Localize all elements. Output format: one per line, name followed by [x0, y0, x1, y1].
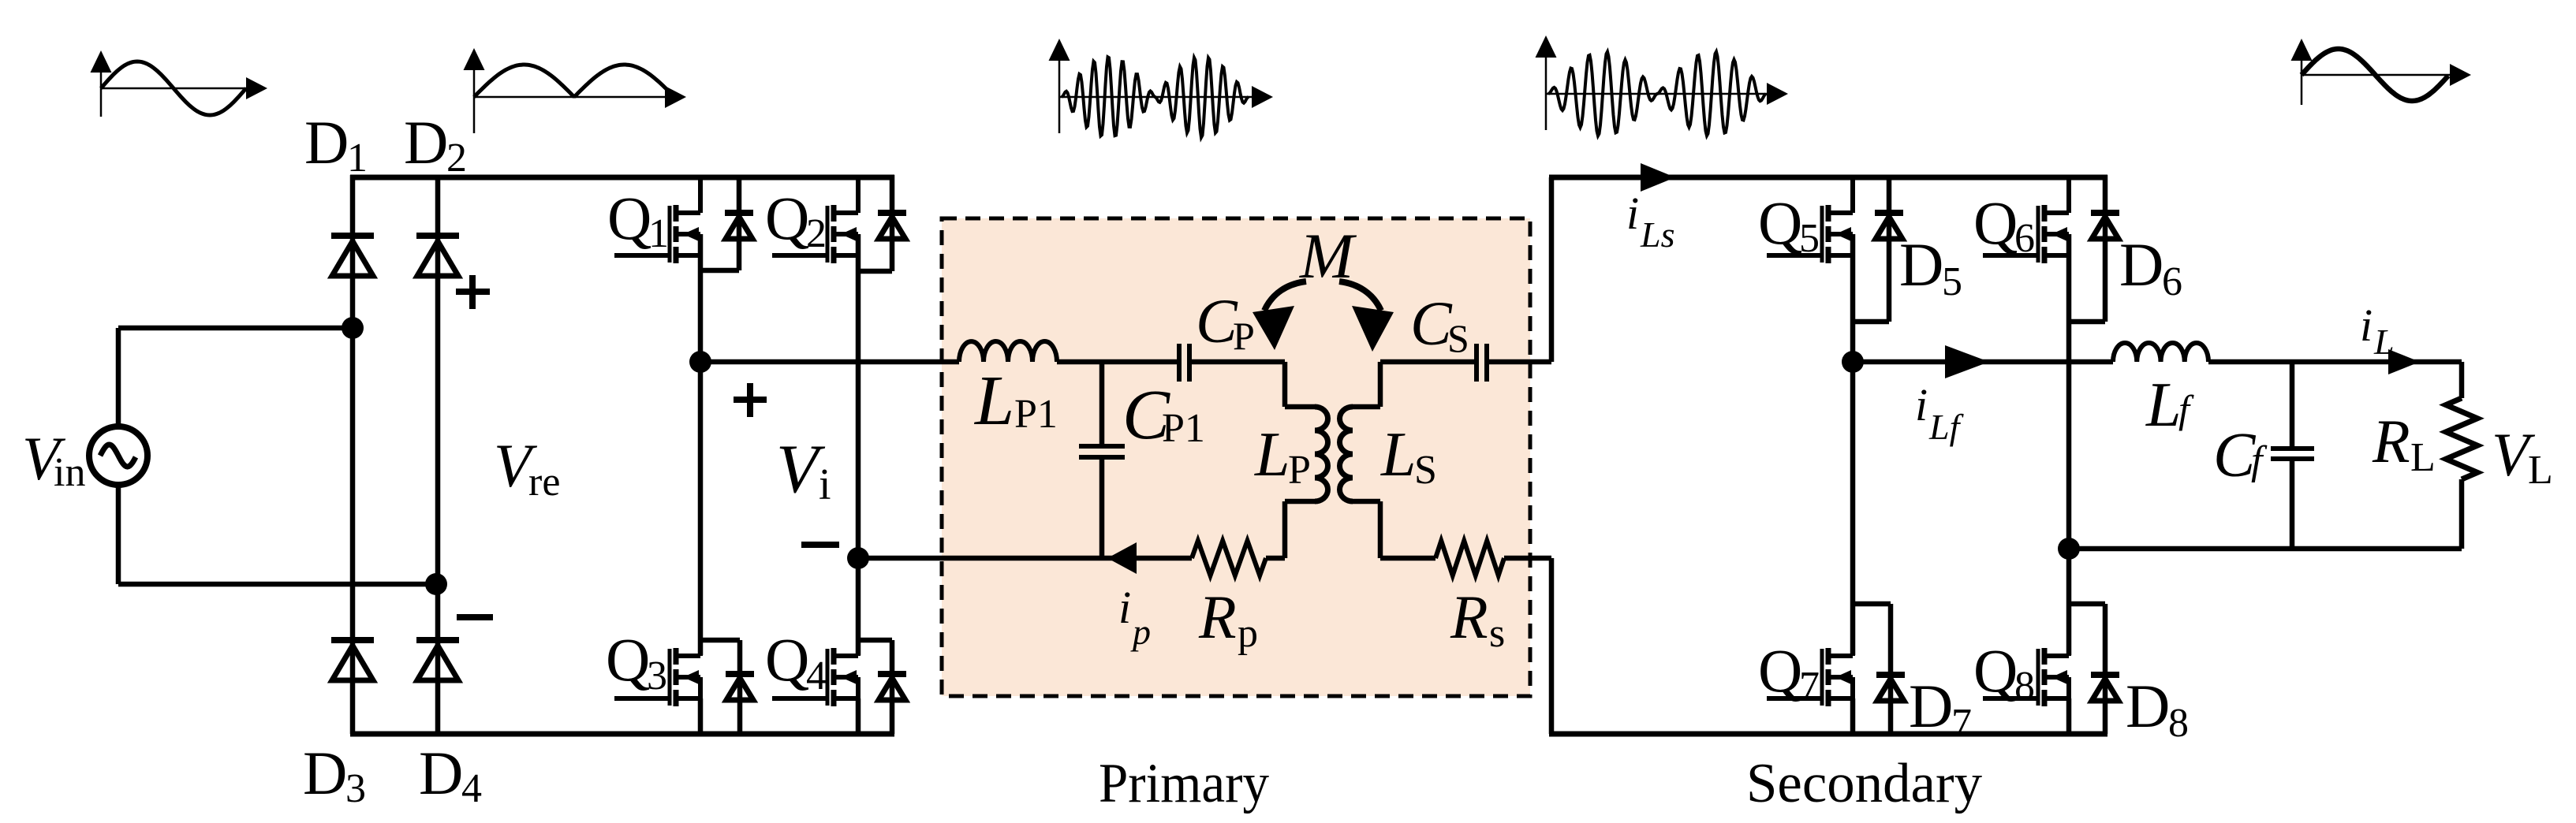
diode D4	[416, 640, 459, 680]
svg-text:C: C	[1196, 288, 1238, 356]
diode D8	[2103, 604, 2108, 734]
wire Vi- rail	[858, 556, 1192, 561]
transistor Q3	[614, 618, 700, 706]
plus sign Vi	[734, 397, 767, 403]
body diode of Q4	[890, 640, 895, 734]
svg-text:7: 7	[1799, 664, 1820, 709]
svg-text:Q: Q	[607, 184, 651, 252]
svg-text:i: i	[819, 460, 831, 509]
capacitor Cf	[2271, 446, 2314, 451]
svg-text:R: R	[1450, 583, 1488, 651]
transistor Q8	[1983, 618, 2069, 706]
wire CS to secondary top	[1488, 359, 1551, 365]
diode D7	[1888, 604, 1894, 734]
transistor Q7	[1767, 618, 1853, 706]
wire top bus (inverter)	[350, 175, 894, 181]
svg-text:i: i	[1915, 379, 1928, 430]
wire LS bottom	[1353, 499, 1380, 505]
svg-text:Secondary: Secondary	[1746, 753, 1982, 814]
svg-text:p: p	[1238, 611, 1258, 656]
svg-text:1: 1	[347, 136, 368, 181]
wire CP to LP top	[1191, 359, 1285, 365]
svg-text:Q: Q	[1973, 188, 2018, 257]
svg-text:L: L	[2528, 448, 2553, 493]
svg-text:Q: Q	[606, 625, 650, 694]
capacitor Cf branch	[2290, 362, 2295, 449]
svg-text:re: re	[528, 460, 560, 505]
svg-text:Lf: Lf	[1928, 407, 1965, 447]
winding LP	[1315, 407, 1328, 501]
wire LP bottom	[1285, 499, 1315, 505]
transistor Q2	[772, 175, 858, 263]
wire inverter right leg mid	[856, 234, 861, 655]
svg-text:Q: Q	[765, 625, 809, 694]
waveform icon: input AC sine	[100, 69, 103, 117]
svg-text:L: L	[2373, 322, 2395, 362]
diode D5	[1887, 175, 1892, 322]
current arrow iLs	[1641, 163, 1675, 192]
svg-text:6: 6	[2162, 259, 2182, 304]
node Vi-	[847, 547, 869, 569]
wire Rs to secondary bottom	[1504, 556, 1551, 561]
wire Vin top	[116, 328, 121, 426]
svg-text:M: M	[1299, 220, 1357, 292]
resistor RL	[2446, 398, 2477, 479]
svg-text:S: S	[1414, 448, 1437, 493]
svg-text:i: i	[1626, 188, 1639, 239]
winding LS	[1340, 407, 1353, 501]
waveform icon: output sine	[2301, 58, 2303, 105]
wire LP1 to CP	[1057, 359, 1178, 365]
wire inverter left leg bottom	[698, 698, 704, 734]
svg-text:P1: P1	[1014, 392, 1058, 437]
svg-text:Q: Q	[765, 184, 809, 252]
wire Lf to RL	[2208, 359, 2462, 365]
wire bottom bus (secondary)	[1549, 732, 2107, 737]
svg-text:i: i	[2360, 300, 2373, 351]
current arrow iLf	[1945, 345, 1989, 378]
wire secondary right leg mid	[2066, 234, 2072, 655]
svg-text:Q: Q	[1758, 636, 1802, 705]
svg-text:L: L	[973, 362, 1014, 440]
svg-text:D: D	[2126, 672, 2170, 740]
node: Vin+ to D1/D3 leg	[342, 317, 364, 339]
svg-text:R: R	[1198, 583, 1237, 651]
svg-text:D: D	[419, 739, 463, 807]
wire rectifier- to RL	[2069, 546, 2462, 552]
svg-text:P: P	[1288, 448, 1311, 493]
svg-text:C: C	[1410, 290, 1453, 359]
svg-text:5: 5	[1942, 259, 1962, 304]
node secondary rectifier -	[2058, 538, 2080, 560]
svg-text:P1: P1	[1162, 406, 1205, 451]
wire rectifier left leg	[350, 175, 356, 734]
waveform icon: HF modulated current (primary)	[1058, 58, 1061, 133]
diode D1	[331, 236, 374, 276]
minus sign Vre	[457, 614, 493, 620]
capacitor CP	[1177, 344, 1182, 382]
wire secondary right leg bottom	[2066, 698, 2072, 734]
primary compensation network box	[942, 218, 1530, 696]
waveform icon: HF modulated current (secondary)	[1545, 54, 1547, 130]
svg-text:L: L	[1380, 420, 1417, 490]
svg-text:6: 6	[2014, 216, 2035, 261]
capacitor CP1	[1079, 444, 1125, 449]
transistor Q5	[1767, 175, 1853, 263]
capacitor CP1 branch wire	[1099, 362, 1105, 446]
svg-text:4: 4	[806, 654, 827, 698]
svg-text:5: 5	[1799, 216, 1820, 261]
resistor Rs	[1435, 541, 1504, 575]
svg-text:C: C	[2213, 421, 2257, 490]
wire bottom bus (inverter)	[350, 732, 894, 737]
svg-text:D: D	[304, 108, 349, 177]
svg-text:i: i	[1118, 582, 1131, 633]
wire rectifier right leg	[435, 175, 441, 734]
AC source Vin	[89, 426, 147, 485]
svg-text:s: s	[1489, 611, 1505, 656]
inductor LP1	[959, 341, 1057, 362]
wire inverter left leg mid	[698, 234, 704, 655]
waveform icon: rectified sine	[473, 67, 476, 133]
wire Vi+ to LP1	[700, 359, 959, 365]
body diode of Q1	[737, 175, 742, 270]
wire Vin bottom	[116, 485, 121, 584]
current arrow ip	[1107, 542, 1137, 574]
wire secondary left leg bottom	[1850, 698, 1856, 734]
svg-text:D: D	[2119, 230, 2163, 299]
wire RL bottom	[2459, 479, 2465, 549]
wire rectifier+ to Lf	[1853, 359, 2113, 365]
svg-text:Primary: Primary	[1099, 753, 1269, 814]
svg-text:L: L	[2145, 371, 2182, 440]
svg-text:R: R	[2372, 407, 2410, 475]
svg-text:Q: Q	[1973, 636, 2018, 705]
mutual coupling arc M	[1264, 281, 1306, 311]
transistor Q4	[772, 618, 858, 706]
resistor Rp	[1192, 541, 1266, 575]
svg-text:4: 4	[461, 766, 482, 811]
svg-text:3: 3	[345, 766, 366, 811]
svg-text:p: p	[1130, 612, 1151, 652]
svg-text:7: 7	[1951, 701, 1972, 746]
svg-text:Q: Q	[1758, 188, 1802, 257]
diode D2	[416, 236, 459, 276]
plus sign Vre	[456, 289, 490, 295]
svg-text:L: L	[1254, 420, 1290, 490]
diode D6	[2103, 175, 2108, 322]
svg-text:L: L	[2410, 435, 2436, 480]
wire secondary left leg mid	[1850, 234, 1856, 655]
svg-text:S: S	[1447, 316, 1469, 360]
transistor Q6	[1983, 175, 2069, 263]
svg-text:8: 8	[2168, 701, 2189, 746]
svg-text:D: D	[1899, 230, 1943, 299]
svg-text:in: in	[54, 450, 85, 495]
svg-text:D: D	[1909, 672, 1953, 740]
transistor Q1	[614, 175, 700, 263]
diode D3	[331, 640, 374, 680]
svg-text:D: D	[404, 108, 448, 177]
minus sign Vi	[801, 542, 839, 548]
current arrow iL	[2388, 349, 2420, 374]
wire inverter right leg bottom	[856, 698, 861, 734]
svg-text:8: 8	[2014, 664, 2035, 709]
svg-text:1: 1	[648, 211, 669, 256]
body diode of Q2	[890, 175, 895, 271]
capacitor CS	[1474, 344, 1479, 382]
svg-text:D: D	[303, 739, 347, 807]
node secondary rectifier +	[1842, 351, 1864, 373]
svg-text:P: P	[1233, 314, 1255, 358]
wire top bus (secondary)	[1549, 175, 2107, 181]
svg-text:2: 2	[446, 136, 467, 181]
body diode of Q3	[737, 640, 743, 734]
svg-text:3: 3	[647, 654, 667, 698]
svg-text:Ls: Ls	[1640, 214, 1674, 255]
wire LS top	[1353, 404, 1380, 410]
node Vi+	[689, 351, 711, 373]
node: Vin- to D2/D4 leg	[425, 573, 447, 595]
svg-text:2: 2	[806, 211, 827, 256]
inductor Lf	[2113, 343, 2208, 362]
